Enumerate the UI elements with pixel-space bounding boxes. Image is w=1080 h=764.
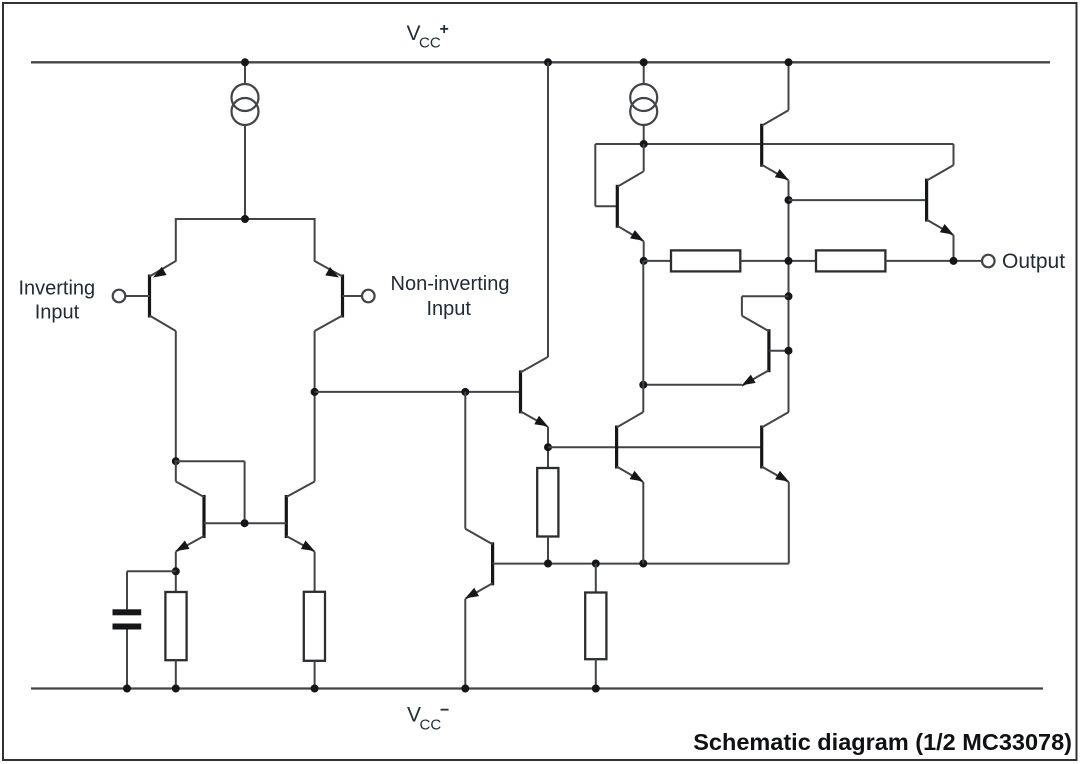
wire Q3 emitter to R1	[175, 552, 177, 593]
wire mirror diode tie	[176, 461, 245, 523]
node Q8 collector tap	[785, 292, 793, 300]
wire Q11 collector chain	[642, 261, 644, 412]
node Q10 emitter on rail	[461, 685, 469, 693]
transistor Q3 mirror NPN	[176, 482, 204, 552]
node mirror base	[241, 519, 249, 527]
node Q8 emitter / Q11 collector	[639, 381, 647, 389]
wire R4 to rail	[595, 659, 597, 688]
svg-text:−: −	[440, 702, 449, 719]
label Inverting Input	[18, 278, 95, 324]
VCC+ rail	[31, 61, 1050, 63]
node I2 to base bus	[640, 140, 648, 148]
transistor Q9 NPN	[521, 357, 549, 427]
wire mirror base bus	[204, 522, 286, 524]
svg-text:CC: CC	[420, 717, 442, 734]
VCC- rail	[31, 687, 1043, 689]
wire Q7 base	[789, 199, 927, 201]
transistor Q11 NPN	[617, 412, 644, 482]
transistor Q1 inverting input PNP	[125, 261, 176, 331]
wire Q4 emitter to R2	[314, 552, 316, 592]
wire R4 lead	[595, 564, 597, 593]
capacitor C1	[113, 609, 142, 629]
wire Q2 collector to Q9 base bus	[314, 331, 316, 482]
node Q9 emitter / bias bus	[544, 443, 552, 451]
resistor R4	[585, 593, 606, 660]
wire bias bus to output stage	[548, 446, 762, 448]
svg-text:Output: Output	[1002, 250, 1065, 273]
node Q1 collector / mirror tie	[172, 457, 180, 465]
transistor Q8 diode NPN mirrored	[742, 316, 769, 386]
resistor R1 Q3 emitter	[165, 592, 186, 660]
svg-text:Input: Input	[426, 298, 471, 320]
node VCC+ at I2	[640, 58, 648, 66]
node R2 on rail	[311, 685, 319, 693]
svg-text:Schematic diagram (1/2 MC33078: Schematic diagram (1/2 MC33078)	[693, 729, 1072, 755]
label Non-inverting Input	[391, 273, 510, 320]
wire Q1 collector	[175, 331, 177, 461]
node Q5 emitter on R5 row	[640, 257, 648, 265]
wire Q11 emitter	[642, 482, 644, 564]
node R1 on rail	[172, 685, 180, 693]
wire R2 to rail	[314, 661, 316, 689]
node Q2 collector / signal takeoff	[311, 388, 319, 396]
transistor Q7 output NPN	[927, 165, 954, 235]
wire Q9 emitter	[547, 427, 549, 468]
transistor Q12 NPN	[762, 412, 789, 482]
resistor R3	[537, 468, 558, 537]
label VCC+	[407, 21, 449, 52]
wire Q7 emitter to output node	[953, 235, 955, 261]
node R4 on rail	[592, 685, 600, 693]
wire Q8 emitter to Q11 collector	[643, 384, 742, 386]
transistor Q2 non-inverting input PNP	[315, 261, 362, 331]
current source I1	[232, 62, 259, 219]
inverting input terminal	[113, 290, 126, 303]
node capacitor tap	[172, 567, 180, 575]
wire R5 to node	[740, 260, 816, 262]
wire Q3 collector stub	[175, 460, 177, 482]
svg-text:CC: CC	[419, 35, 441, 52]
svg-text:Non-inverting: Non-inverting	[391, 273, 510, 295]
output terminal	[982, 255, 995, 268]
transistor Q5 diode NPN	[617, 171, 643, 241]
wire Q9 collector from VCC+	[547, 62, 549, 357]
wire signal to Q9 base	[315, 391, 521, 393]
svg-text:+: +	[440, 21, 449, 38]
svg-text:Input: Input	[35, 301, 80, 323]
wire sink bus	[493, 563, 789, 565]
wire Q5 base loop	[595, 144, 617, 206]
node output junction	[950, 257, 958, 265]
wire Q6 base bus	[595, 143, 953, 145]
node capacitor on rail	[123, 685, 131, 693]
node Q10 collector tap	[461, 388, 469, 396]
wire Q6 emitter chain	[788, 180, 790, 412]
resistor R5	[671, 250, 740, 271]
wire input-pair emitter bus	[176, 218, 315, 262]
wire Q6 collector to VCC+	[788, 62, 790, 110]
svg-text:Inverting: Inverting	[18, 278, 95, 300]
label Output	[1002, 250, 1065, 273]
label VCC-	[407, 702, 449, 734]
wire Q5 emitter	[643, 241, 645, 261]
wire R1 to rail	[175, 660, 177, 688]
title Schematic diagram	[693, 729, 1072, 755]
node R4 tap on sink bus	[592, 560, 600, 568]
transistor Q10 NPN	[465, 529, 492, 599]
wire Q5 emitter to R5	[644, 260, 671, 262]
node Q6 emitter on resistor row	[785, 257, 793, 265]
wire capacitor branch	[127, 571, 176, 609]
non-inverting input terminal	[362, 290, 375, 303]
wire Q10 collector	[464, 392, 466, 529]
transistor Q6 NPN	[762, 110, 789, 180]
current source I2	[630, 62, 657, 144]
transistor Q4 mirror NPN	[286, 482, 314, 552]
wire capacitor to VCC- rail	[126, 630, 128, 689]
node Q11 emitter on sink bus	[639, 560, 647, 568]
node Q7 base tap	[785, 196, 793, 204]
wire Q5 collector	[643, 144, 645, 171]
node Q8 base tap	[785, 347, 793, 355]
wire R3 to sink bus	[547, 537, 549, 564]
wire Q8 base	[769, 350, 789, 352]
node R3 on sink bus	[544, 560, 552, 568]
node VCC+ at Q9 collector	[544, 58, 552, 66]
wire Q7 collector riser	[953, 144, 955, 165]
node I1 to emitter bus	[241, 215, 249, 223]
wire Q8 collector loop	[742, 296, 789, 315]
resistor R6	[816, 250, 885, 271]
node VCC+ at Q6	[785, 58, 793, 66]
wire R6 to output node	[885, 260, 982, 262]
wire Q10 emitter to rail	[464, 599, 466, 689]
wire Q12 emitter	[788, 482, 790, 564]
node on VCC+ at I1	[241, 58, 249, 66]
resistor R2 Q4 emitter	[304, 592, 325, 661]
